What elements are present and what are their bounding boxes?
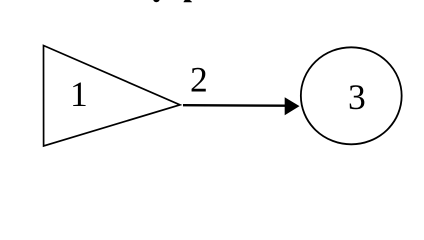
svg-text:2: 2 [190,60,208,100]
svg-text:1: 1 [70,74,88,114]
svg-text:3: 3 [348,77,366,117]
